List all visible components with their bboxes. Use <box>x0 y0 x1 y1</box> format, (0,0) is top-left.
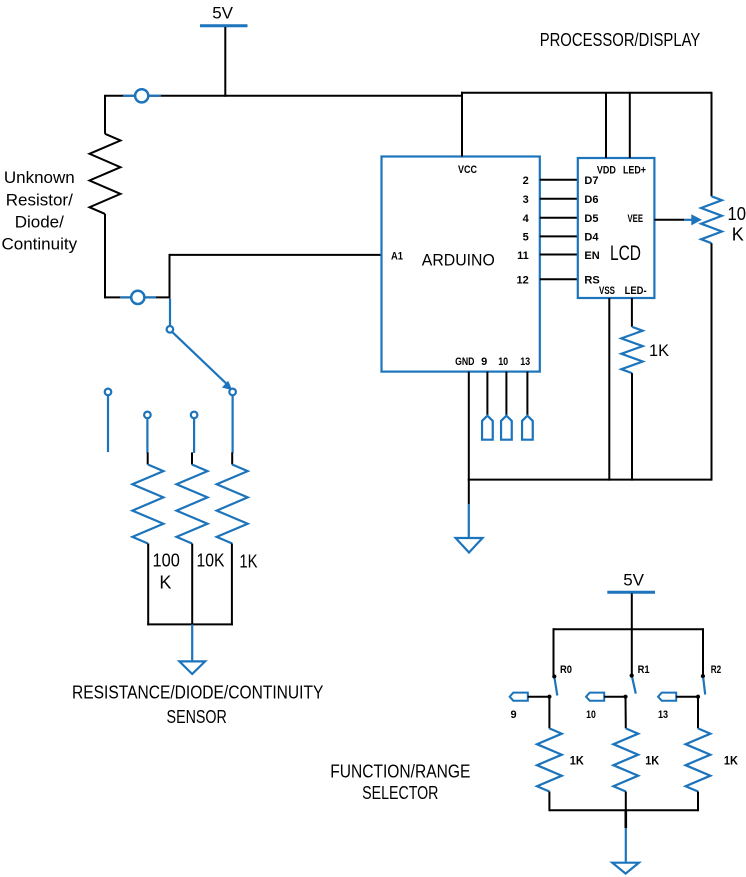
label 10K pot <box>728 204 746 244</box>
wire pin 10 to junction <box>604 696 625 698</box>
power 5V supply (top left) <box>200 4 248 26</box>
wire 5V to top rail <box>224 27 226 97</box>
svg-text:5V: 5V <box>212 4 233 23</box>
wire junction to resistor x549.4 <box>548 697 550 729</box>
connector pin 9 selector <box>510 693 528 701</box>
wire resistor to rail x549.4 <box>548 792 550 812</box>
power 5V selector <box>607 571 655 593</box>
label PROCESSOR/DISPLAY <box>540 30 701 50</box>
wire unknown resistor to lower node <box>104 214 106 299</box>
op ARDUINO U1 box <box>382 157 540 372</box>
wire VSS drop <box>608 298 610 481</box>
label 1K selector c <box>724 754 738 768</box>
svg-text:13: 13 <box>520 356 530 368</box>
wire VEE to wiper <box>654 219 684 221</box>
pin labels D7,D6,D5,D4,EN,RS <box>584 175 599 287</box>
svg-text:2: 2 <box>523 175 529 187</box>
svg-text:D6: D6 <box>584 194 598 206</box>
wire resistor to rail x625.8 <box>625 792 627 812</box>
svg-text:9: 9 <box>510 709 516 721</box>
resistor 1K selector x698 <box>686 728 711 791</box>
pin label LED- <box>625 285 647 297</box>
label R1 <box>638 664 650 676</box>
junction dot R2 <box>701 674 705 678</box>
switch SW1 pole contact <box>167 326 174 333</box>
svg-text:VSS: VSS <box>599 285 615 297</box>
wire left drop to unknown resistor <box>104 95 106 134</box>
label 1K selector a <box>570 754 584 768</box>
svg-text:5: 5 <box>523 232 529 244</box>
label LCD <box>610 242 641 265</box>
svg-text:D5: D5 <box>584 213 598 225</box>
ground sensor <box>179 624 205 674</box>
svg-text:3: 3 <box>523 194 529 206</box>
switch R1 blade <box>632 678 636 694</box>
label 13 selector <box>658 709 668 721</box>
label 9 selector <box>510 709 516 721</box>
svg-text:R1: R1 <box>638 664 650 676</box>
label 10 selector <box>586 709 596 721</box>
svg-text:13: 13 <box>658 709 668 721</box>
svg-text:Diode/: Diode/ <box>15 212 64 231</box>
connector pin 10 plug <box>501 372 512 440</box>
svg-text:9: 9 <box>481 356 487 368</box>
svg-text:10: 10 <box>728 204 746 224</box>
switch SW1 blade with arrow <box>172 332 232 390</box>
resistor 1K selector x549.4 <box>537 728 562 791</box>
wire VCC feed <box>461 93 463 157</box>
connector pin 10 selector <box>586 693 604 701</box>
wire VDD feed <box>605 93 607 158</box>
wire throw to R 1K <box>232 395 234 453</box>
svg-text:SELECTOR: SELECTOR <box>362 783 438 803</box>
wire top rail right segment <box>461 92 712 94</box>
connector pin 13 selector <box>658 693 676 701</box>
wire stub to resistor 100K <box>147 452 149 464</box>
label R2 <box>711 664 721 676</box>
wire LED- drop <box>631 298 633 327</box>
label FUNCTION/RANGE SELECTOR <box>330 762 470 804</box>
wire selector drop R2 <box>702 628 704 675</box>
wire pin 13 to junction <box>676 696 698 698</box>
resistor 100K <box>132 465 163 544</box>
wire 1K to rail <box>231 544 233 626</box>
pin label A1 <box>391 250 403 262</box>
svg-text:K: K <box>732 224 744 244</box>
pin label VDD <box>597 164 616 176</box>
svg-text:10: 10 <box>586 709 596 721</box>
wire top rail left segment <box>105 95 462 97</box>
resistor 10K <box>177 465 208 544</box>
wire switch pole <box>169 299 171 326</box>
svg-text:D7: D7 <box>584 175 598 187</box>
svg-text:R2: R2 <box>711 664 721 676</box>
wire selector 5V drop <box>631 594 633 676</box>
wire junction to resistor x625.8 <box>625 697 627 729</box>
junction dot pin 9 <box>547 695 551 699</box>
pin label LED+ <box>623 164 646 176</box>
svg-text:1K: 1K <box>239 552 257 572</box>
wire stub to resistor 10K <box>191 452 193 464</box>
junction dot R1 <box>630 674 634 678</box>
pin label VEE <box>628 213 644 225</box>
wire throw to R 100K <box>146 418 148 453</box>
svg-text:VCC: VCC <box>458 164 477 176</box>
junction dot pin 10 <box>623 695 627 699</box>
pin label 10 <box>498 356 508 368</box>
svg-text:5V: 5V <box>623 571 644 590</box>
label 10K <box>197 551 225 571</box>
pin label GND <box>455 356 474 368</box>
svg-text:100: 100 <box>153 551 180 571</box>
label RESISTANCE/DIODE/CONTINUITY SENSOR <box>72 683 323 727</box>
svg-text:Continuity: Continuity <box>1 235 77 254</box>
svg-text:1K: 1K <box>645 754 659 768</box>
label 1K LED <box>649 341 670 360</box>
svg-text:PROCESSOR/DISPLAY: PROCESSOR/DISPLAY <box>540 30 701 50</box>
svg-text:11: 11 <box>517 250 529 262</box>
switch throw contact (100K) <box>144 412 151 419</box>
svg-text:10K: 10K <box>197 551 225 571</box>
pin label 13 <box>520 356 530 368</box>
resistor 1K sensor <box>217 465 248 544</box>
switch throw contact (1K) <box>229 389 236 396</box>
potentiometer 10K <box>701 196 722 243</box>
svg-text:D4: D4 <box>584 232 599 244</box>
junction dot R0 <box>552 674 556 678</box>
wire selector drop R0 <box>553 628 555 675</box>
svg-text:GND: GND <box>455 356 474 368</box>
switch R2 blade <box>703 678 705 695</box>
wire throw to R 10K <box>193 418 195 453</box>
connector pin 9 plug <box>482 372 493 440</box>
node connector circle (top) <box>123 89 161 102</box>
wire top rail jog <box>461 92 463 97</box>
wire pin 9 to junction <box>528 696 550 698</box>
pin label 9 <box>481 356 487 368</box>
label 1K selector b <box>645 754 659 768</box>
wire 10K to rail <box>191 544 193 626</box>
label 1K sensor <box>239 552 257 572</box>
svg-text:4: 4 <box>523 213 530 225</box>
resistor R-unknown (Unknown Resistor/Diode/Continuity) <box>90 134 121 214</box>
resistor 1K LED <box>621 327 642 373</box>
svg-text:Unknown: Unknown <box>4 168 75 187</box>
svg-text:R0: R0 <box>560 664 572 676</box>
pin labels 2,3,4,5,11,12 <box>517 175 530 287</box>
wire 1K LED to rail <box>631 373 633 481</box>
svg-text:12: 12 <box>517 275 529 287</box>
svg-text:1K: 1K <box>724 754 738 768</box>
wire 100K to rail <box>147 544 149 626</box>
pot wiper arrow <box>684 214 702 225</box>
wire GND drop <box>468 372 470 481</box>
switch R0 blade <box>555 679 558 696</box>
svg-text:LED-: LED- <box>625 285 647 297</box>
svg-text:EN: EN <box>584 250 599 262</box>
resistor 1K selector x625.8 <box>613 728 638 791</box>
wire selector bottom rail <box>549 809 698 811</box>
pin label VCC <box>458 164 477 176</box>
svg-text:FUNCTION/RANGE: FUNCTION/RANGE <box>330 762 470 782</box>
wire stub throw <box>107 395 109 452</box>
svg-text:1K: 1K <box>649 341 670 360</box>
ground ARDUINO GND <box>456 480 483 553</box>
wire pot bottom <box>711 243 713 480</box>
connector pin 13 plug <box>522 372 533 440</box>
label ARDUINO <box>422 251 495 270</box>
wire junction to resistor x698 <box>697 697 699 729</box>
wire A1 to switch <box>170 254 382 298</box>
svg-text:RESISTANCE/DIODE/CONTINUITY: RESISTANCE/DIODE/CONTINUITY <box>72 683 323 703</box>
wire pot top feed <box>711 92 713 197</box>
node connector circle (lower) <box>120 291 156 304</box>
svg-text:1K: 1K <box>570 754 584 768</box>
svg-text:10: 10 <box>498 356 508 368</box>
svg-text:LCD: LCD <box>610 242 641 265</box>
switch throw contact NC (stub) <box>105 389 112 396</box>
svg-text:Resistor/: Resistor/ <box>6 190 73 209</box>
junction dot pin 13 <box>696 695 700 699</box>
label Unknown Resistor/Diode/Continuity <box>1 168 77 253</box>
label 100K <box>153 551 180 593</box>
wire stub to resistor 1K sensor <box>231 452 233 464</box>
wire ground bottom rail <box>468 479 712 481</box>
ground selector <box>612 810 639 873</box>
svg-text:RS: RS <box>584 275 599 287</box>
svg-text:A1: A1 <box>391 250 403 262</box>
wire selector top rail <box>554 628 704 630</box>
op LCD U2 box <box>578 158 655 298</box>
wire lower node horizontal <box>104 296 171 298</box>
wire LED+ feed <box>629 93 631 158</box>
wire ARDUINO to LCD data lines <box>540 180 578 280</box>
svg-text:LED+: LED+ <box>623 164 646 176</box>
svg-text:VEE: VEE <box>628 213 644 225</box>
svg-text:SENSOR: SENSOR <box>167 707 227 727</box>
wire sensor bottom rail <box>147 623 233 625</box>
svg-text:K: K <box>159 573 171 593</box>
switch throw contact (10K) <box>191 412 198 419</box>
label R0 <box>560 664 572 676</box>
pin label VSS <box>599 285 615 297</box>
svg-text:ARDUINO: ARDUINO <box>422 251 495 270</box>
wire resistor to rail x698 <box>697 792 699 812</box>
svg-text:VDD: VDD <box>597 164 616 176</box>
